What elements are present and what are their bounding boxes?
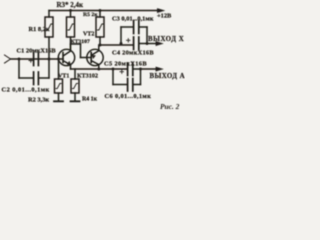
svg-text:R3* 2,4к: R3* 2,4к bbox=[57, 1, 85, 9]
svg-text:Рис. 2: Рис. 2 bbox=[160, 102, 180, 111]
svg-text:C5 20мкХ16В: C5 20мкХ16В bbox=[104, 61, 147, 68]
svg-text:+12В: +12В bbox=[157, 13, 172, 20]
svg-text:VT2: VT2 bbox=[83, 32, 94, 38]
svg-text:КТ3107: КТ3107 bbox=[71, 39, 90, 45]
svg-text:R1 8,2к: R1 8,2к bbox=[29, 26, 50, 33]
svg-text:R2 3,3к: R2 3,3к bbox=[28, 97, 49, 104]
svg-text:C6 0,01...0,1мк: C6 0,01...0,1мк bbox=[105, 93, 152, 100]
svg-text:VT1: VT1 bbox=[58, 74, 69, 80]
svg-text:R4 1к: R4 1к bbox=[82, 97, 98, 103]
svg-text:ВЫХОД X: ВЫХОД X bbox=[148, 36, 184, 43]
svg-text:КТ3102: КТ3102 bbox=[77, 73, 98, 80]
svg-text:C1 20мкХ16В: C1 20мкХ16В bbox=[17, 48, 57, 55]
svg-text:C4 20мкХ16В: C4 20мкХ16В bbox=[112, 50, 154, 57]
svg-text:ВЫХОД А: ВЫХОД А bbox=[150, 73, 186, 80]
svg-text:C2 0,01...0,1мк: C2 0,01...0,1мк bbox=[2, 87, 50, 94]
svg-text:C3 0,01...0,1мк: C3 0,01...0,1мк bbox=[112, 16, 154, 23]
svg-text:R5 2к: R5 2к bbox=[83, 12, 98, 18]
